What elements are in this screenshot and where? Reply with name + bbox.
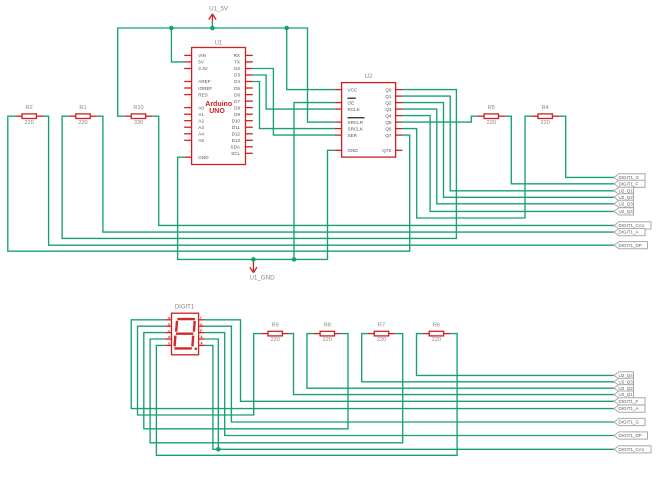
node DIGIT1_G label (top) bbox=[614, 174, 645, 181]
wire R6 left to label U2_Q4 bbox=[417, 334, 615, 376]
svg-text:R10: R10 bbox=[133, 105, 143, 111]
svg-text:TX: TX bbox=[234, 60, 240, 65]
svg-text:220: 220 bbox=[323, 337, 332, 343]
wire U1 D2 to U2 SER bbox=[253, 69, 335, 136]
IC U2 shift register 74HC595 bbox=[335, 74, 403, 157]
resistor R4 220 ohm bbox=[531, 105, 559, 126]
svg-text:SDA: SDA bbox=[231, 145, 241, 150]
node U2_Q2 label (top) bbox=[614, 194, 634, 201]
svg-text:U2: U2 bbox=[365, 74, 373, 80]
wire U2 Q0 to R1 left bbox=[62, 90, 456, 239]
svg-text:D3: D3 bbox=[234, 73, 240, 78]
wire R10 right to label DIGIT1_CA1 bbox=[152, 116, 614, 225]
svg-text:R1: R1 bbox=[79, 105, 86, 111]
svg-text:RCLK: RCLK bbox=[348, 107, 361, 112]
wire DIGIT1 c to R8 right bbox=[144, 333, 348, 429]
wire DIGIT1 d to R7 right bbox=[150, 334, 403, 443]
svg-text:R4: R4 bbox=[542, 105, 549, 111]
svg-text:220: 220 bbox=[432, 337, 441, 343]
node U2_Q2 label (bottom) bbox=[614, 385, 634, 392]
svg-text:R2: R2 bbox=[26, 105, 33, 111]
svg-text:Arduino: Arduino bbox=[205, 101, 232, 108]
resistor R5 220 ohm bbox=[478, 105, 506, 126]
svg-text:D9: D9 bbox=[234, 112, 240, 117]
svg-text:R5: R5 bbox=[488, 105, 495, 111]
node DIGIT1_CA1 label (top) bbox=[614, 222, 651, 229]
svg-text:U2_Q1: U2_Q1 bbox=[619, 392, 634, 397]
svg-text:220: 220 bbox=[78, 120, 87, 126]
svg-text:DIGIT1_F: DIGIT1_F bbox=[619, 181, 639, 186]
svg-text:DIGIT1_A: DIGIT1_A bbox=[619, 230, 639, 235]
power symbol U1_5V bbox=[209, 6, 229, 22]
node U2_Q4 label (bottom) bbox=[614, 372, 634, 379]
junction 5V rail / U1_5V symbol bbox=[210, 26, 215, 31]
svg-text:d: d bbox=[168, 335, 170, 339]
node DIGIT1_F label (top) bbox=[614, 180, 645, 187]
wire DIGIT1 g to label DIGIT1_G bbox=[205, 326, 614, 422]
svg-text:Q4: Q4 bbox=[385, 113, 392, 118]
svg-text:OE: OE bbox=[348, 100, 355, 105]
wire U2 Q2 to label U2_Q2 bbox=[402, 103, 614, 198]
svg-text:U1_5V: U1_5V bbox=[209, 6, 229, 13]
svg-text:DIGIT1_DP: DIGIT1_DP bbox=[619, 243, 642, 248]
wire R1 right to label DIGIT1_A bbox=[97, 116, 614, 232]
svg-text:a: a bbox=[168, 316, 170, 320]
7-segment display DIGIT1 bbox=[165, 305, 205, 355]
svg-text:U1_GND: U1_GND bbox=[249, 275, 275, 282]
svg-text:330: 330 bbox=[134, 120, 143, 126]
resistor R9 220 ohm bbox=[261, 322, 289, 343]
svg-text:DIGIT1_F: DIGIT1_F bbox=[619, 399, 639, 404]
node DIGIT1_F label (bottom) bbox=[614, 398, 645, 405]
node DIGIT1_A label (top) bbox=[614, 229, 645, 236]
wire U2 Q7 to R2 left bbox=[8, 116, 410, 251]
svg-text:220: 220 bbox=[271, 337, 280, 343]
svg-text:Q6: Q6 bbox=[385, 126, 392, 131]
resistor R6 220 ohm bbox=[423, 322, 451, 343]
wire DIGIT1 A upper to common anode net bbox=[205, 339, 219, 449]
svg-text:UNO: UNO bbox=[209, 108, 225, 115]
svg-text:RX: RX bbox=[234, 53, 240, 58]
svg-text:U2_Q2: U2_Q2 bbox=[619, 195, 634, 200]
junction GND rail / OE branch bbox=[292, 257, 297, 262]
node U2_Q3 label (bottom) bbox=[614, 378, 634, 385]
op-amp U1 Arduino UNO module bbox=[184, 41, 253, 165]
node U2_Q3 label (top) bbox=[614, 200, 634, 207]
wire U2 Q4 to label U2_Q4 bbox=[402, 116, 614, 212]
svg-text:c: c bbox=[168, 329, 170, 333]
wire U2 Q6 to R4 left bbox=[402, 116, 531, 218]
svg-text:SER: SER bbox=[348, 133, 358, 138]
svg-text:A1: A1 bbox=[198, 112, 204, 117]
node DIGIT1_CA1 label (bottom) bbox=[614, 446, 651, 453]
wire U2 OE to GND rail bbox=[294, 103, 335, 260]
svg-text:220: 220 bbox=[487, 120, 496, 126]
svg-text:D11: D11 bbox=[232, 125, 241, 130]
wire U1 D3 to U2 RCLK bbox=[253, 75, 335, 109]
svg-text:Q3: Q3 bbox=[385, 107, 392, 112]
svg-text:RES: RES bbox=[198, 92, 207, 97]
wire GND rail U1 GND to U2 GND bbox=[178, 150, 335, 259]
svg-text:R7: R7 bbox=[378, 322, 385, 328]
svg-text:220: 220 bbox=[25, 120, 34, 126]
svg-text:GND: GND bbox=[348, 148, 359, 153]
svg-text:R8: R8 bbox=[324, 322, 331, 328]
wire DIGIT1 A lower to label DIGIT1_CA1 bbox=[205, 345, 614, 449]
svg-text:D8: D8 bbox=[234, 105, 240, 110]
node U2_Q4 label (top) bbox=[614, 208, 634, 215]
junction common anode wires bbox=[216, 447, 221, 452]
svg-text:GND: GND bbox=[198, 155, 209, 160]
svg-text:DIGIT1_G: DIGIT1_G bbox=[619, 420, 640, 425]
svg-text:U1: U1 bbox=[215, 41, 223, 47]
svg-text:D4: D4 bbox=[234, 79, 240, 84]
junction GND rail / U1_GND symbol bbox=[251, 257, 256, 262]
wire R5 right to label DIGIT1_F bbox=[505, 116, 614, 184]
svg-text:R6: R6 bbox=[433, 322, 440, 328]
svg-text:U2_Q3: U2_Q3 bbox=[619, 379, 634, 384]
wire DIGIT1 f to label DIGIT1_F bbox=[205, 320, 614, 402]
wire U2 Q1 to label U2_Q1 bbox=[402, 96, 614, 191]
svg-text:Q5: Q5 bbox=[385, 120, 392, 125]
svg-text:Q7S: Q7S bbox=[382, 148, 391, 153]
node U2_Q1 label (bottom) bbox=[614, 391, 634, 398]
svg-text:A0: A0 bbox=[198, 105, 204, 110]
svg-text:Q7: Q7 bbox=[385, 133, 392, 138]
svg-text:DIGIT1_DP: DIGIT1_DP bbox=[619, 433, 642, 438]
svg-text:SRCLK: SRCLK bbox=[348, 126, 364, 131]
wire U2 Q5 to R5 left bbox=[402, 116, 477, 122]
resistor R8 220 ohm bbox=[314, 322, 342, 343]
svg-text:A3: A3 bbox=[198, 125, 204, 130]
resistor R10 330 ohm bbox=[125, 105, 153, 126]
svg-text:VIN: VIN bbox=[198, 53, 206, 58]
wire R4 right to label DIGIT1_G bbox=[559, 116, 614, 177]
wire R7 left to label U2_Q3 bbox=[362, 334, 614, 382]
wire R2 right to label DIGIT1_DP bbox=[43, 116, 614, 245]
node DIGIT1_G label (bottom) bbox=[614, 418, 645, 425]
wire R9 right to label U2_Q1 bbox=[289, 334, 614, 395]
svg-text:A5: A5 bbox=[198, 138, 204, 143]
svg-text:U2_Q2: U2_Q2 bbox=[619, 386, 634, 391]
svg-text:U2_Q1: U2_Q1 bbox=[619, 188, 634, 193]
svg-text:U2_Q4: U2_Q4 bbox=[619, 373, 634, 378]
wire U1_5V arrow stub bbox=[211, 22, 213, 28]
svg-text:g: g bbox=[200, 322, 202, 326]
node DIGIT1_DP label (top) bbox=[614, 242, 648, 249]
wire DIGIT1 P to label DIGIT1_DP bbox=[205, 333, 614, 436]
wire DIGIT1 a to label DIGIT1_A bbox=[131, 320, 614, 409]
svg-text:Q2: Q2 bbox=[385, 100, 392, 105]
svg-text:e: e bbox=[168, 342, 170, 346]
junction 5V rail / U2 VCC branch bbox=[284, 26, 289, 31]
svg-text:220: 220 bbox=[541, 120, 550, 126]
node DIGIT1_A label (bottom) bbox=[614, 405, 645, 412]
svg-text:A4: A4 bbox=[198, 132, 204, 137]
svg-text:3.3V: 3.3V bbox=[198, 66, 208, 71]
svg-text:D10: D10 bbox=[232, 118, 241, 123]
svg-text:U2_Q3: U2_Q3 bbox=[619, 201, 634, 206]
node U2_Q1 label (top) bbox=[614, 187, 634, 194]
wire DIGIT1 b to R9 left bbox=[138, 326, 262, 415]
svg-text:DIGIT1_A: DIGIT1_A bbox=[619, 406, 639, 411]
wire 5V rail from R10 left up across to U2 SRCLR bbox=[118, 28, 335, 122]
wire U1 D4 to U2 SRCLK bbox=[253, 82, 335, 129]
svg-text:VCC: VCC bbox=[348, 87, 358, 92]
svg-text:SRCLR: SRCLR bbox=[348, 120, 364, 125]
svg-text:D2: D2 bbox=[234, 66, 240, 71]
svg-text:DIGIT1: DIGIT1 bbox=[175, 305, 195, 311]
resistor R7 220 ohm bbox=[368, 322, 396, 343]
wire U2 Q3 to label U2_Q3 bbox=[402, 109, 614, 204]
node DIGIT1_DP label (bottom) bbox=[614, 432, 648, 439]
svg-text:Q0: Q0 bbox=[385, 87, 392, 92]
svg-text:DIGIT1_CA1: DIGIT1_CA1 bbox=[619, 447, 645, 452]
svg-text:D5: D5 bbox=[234, 86, 240, 91]
svg-text:R9: R9 bbox=[272, 322, 279, 328]
resistor R2 220 ohm bbox=[15, 105, 43, 126]
wire R8 left to label U2_Q2 bbox=[307, 334, 614, 389]
resistor R1 220 ohm bbox=[69, 105, 97, 126]
svg-text:Q1: Q1 bbox=[385, 94, 392, 99]
ground symbol U1_GND bbox=[249, 259, 275, 281]
svg-text:SCL: SCL bbox=[231, 151, 240, 156]
svg-text:D7: D7 bbox=[234, 99, 240, 104]
svg-text:IOREF: IOREF bbox=[198, 86, 212, 91]
svg-text:b: b bbox=[168, 322, 170, 326]
wire 5V rail branch to U1 5V pin bbox=[171, 28, 184, 62]
svg-text:D12: D12 bbox=[232, 132, 241, 137]
svg-text:5V: 5V bbox=[198, 60, 205, 65]
wire DIGIT1 e to R6 right bbox=[156, 334, 457, 456]
svg-text:AREF: AREF bbox=[198, 79, 210, 84]
svg-text:D13: D13 bbox=[232, 138, 241, 143]
svg-text:D6: D6 bbox=[234, 92, 240, 97]
svg-text:220: 220 bbox=[377, 337, 386, 343]
svg-text:A2: A2 bbox=[198, 118, 204, 123]
svg-text:DIGIT1_CA1: DIGIT1_CA1 bbox=[619, 223, 645, 228]
junction 5V rail / U1 5V branch bbox=[169, 26, 174, 31]
svg-text:DIGIT1_G: DIGIT1_G bbox=[619, 175, 640, 180]
wire 5V rail branch to U2 VCC pin bbox=[287, 28, 335, 90]
svg-text:U2_Q4: U2_Q4 bbox=[619, 209, 634, 214]
